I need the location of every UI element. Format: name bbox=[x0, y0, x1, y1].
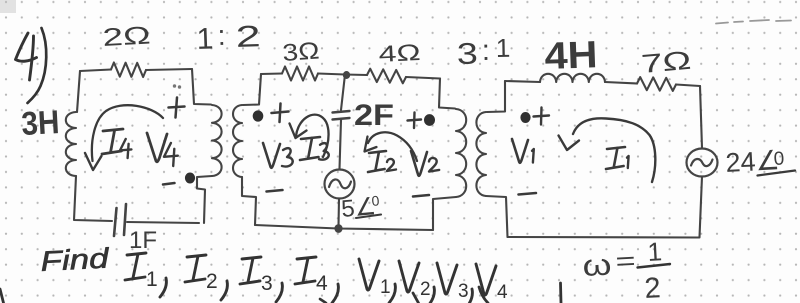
svg-text:3: 3 bbox=[457, 38, 479, 71]
svg-text::: : bbox=[217, 20, 226, 51]
svg-text:0: 0 bbox=[371, 192, 380, 209]
svg-text:4: 4 bbox=[316, 272, 328, 295]
svg-text:1: 1 bbox=[146, 268, 158, 291]
svg-text:2Ω: 2Ω bbox=[102, 22, 151, 52]
svg-text:0: 0 bbox=[773, 148, 785, 170]
svg-text:2: 2 bbox=[420, 279, 431, 300]
svg-text:24∠: 24∠ bbox=[725, 145, 781, 178]
svg-text:Find: Find bbox=[40, 242, 111, 277]
svg-text:1: 1 bbox=[647, 236, 663, 267]
svg-text:1: 1 bbox=[380, 277, 391, 298]
svg-text:2F: 2F bbox=[354, 99, 394, 132]
svg-text:ω: ω bbox=[582, 249, 613, 283]
svg-text:4: 4 bbox=[497, 282, 508, 303]
svg-text:4Ω: 4Ω bbox=[378, 39, 421, 67]
svg-text:1: 1 bbox=[496, 33, 511, 63]
svg-text:7Ω: 7Ω bbox=[640, 45, 692, 79]
svg-text:2: 2 bbox=[206, 270, 218, 293]
svg-text:4H: 4H bbox=[544, 34, 598, 78]
svg-text:2: 2 bbox=[644, 272, 662, 303]
svg-text:3H: 3H bbox=[20, 103, 60, 142]
svg-text:3: 3 bbox=[261, 272, 273, 295]
svg-text:1: 1 bbox=[196, 22, 214, 56]
svg-text:1F: 1F bbox=[129, 227, 157, 254]
svg-text:2: 2 bbox=[235, 20, 261, 54]
svg-text:3Ω: 3Ω bbox=[282, 37, 321, 67]
svg-text:=: = bbox=[615, 247, 636, 276]
svg-text:3: 3 bbox=[458, 281, 469, 302]
svg-text::: : bbox=[482, 35, 491, 67]
